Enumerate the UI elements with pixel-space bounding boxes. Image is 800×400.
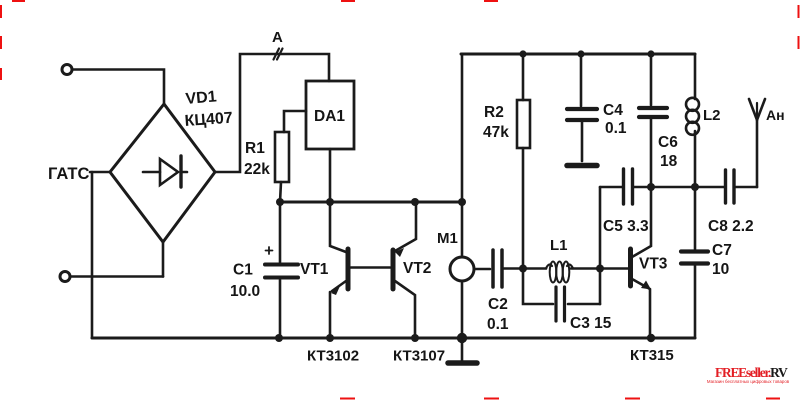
svg-text:R2: R2 [484, 104, 504, 121]
svg-text:C2: C2 [488, 296, 508, 313]
svg-text:VT3: VT3 [639, 256, 668, 273]
svg-text:ГАТС: ГАТС [48, 165, 89, 183]
svg-text:КТ3102: КТ3102 [307, 348, 359, 365]
svg-text:0.1: 0.1 [487, 316, 509, 333]
svg-text:18: 18 [660, 153, 678, 170]
svg-text:КТ3107: КТ3107 [393, 348, 445, 365]
svg-text:FREEseller.RV: FREEseller.RV [715, 365, 788, 380]
svg-text:VT1: VT1 [300, 261, 329, 278]
svg-text:22k: 22k [244, 161, 270, 178]
svg-text:R1: R1 [245, 140, 265, 157]
svg-text:0.1: 0.1 [605, 120, 627, 137]
svg-text:C5 3.3: C5 3.3 [603, 218, 649, 235]
svg-text:10: 10 [712, 261, 729, 278]
svg-text:10.0: 10.0 [230, 283, 260, 300]
svg-text:VT2: VT2 [403, 260, 431, 277]
svg-text:DA1: DA1 [314, 108, 345, 125]
svg-text:КЦ407: КЦ407 [184, 110, 233, 130]
svg-text:C7: C7 [712, 242, 732, 259]
svg-text:M1: M1 [437, 230, 458, 247]
svg-text:C3 15: C3 15 [570, 315, 612, 332]
svg-text:C8 2.2: C8 2.2 [708, 218, 754, 235]
svg-text:L2: L2 [703, 107, 721, 124]
svg-text:А: А [272, 29, 283, 46]
svg-text:VD1: VD1 [185, 88, 218, 108]
svg-text:L1: L1 [550, 237, 568, 254]
svg-text:47k: 47k [483, 124, 509, 141]
svg-text:C4: C4 [603, 102, 623, 119]
svg-text:C1: C1 [233, 262, 253, 279]
svg-text:Ан: Ан [766, 107, 785, 123]
svg-text:КТ315: КТ315 [630, 347, 674, 364]
svg-text:C6: C6 [658, 134, 678, 151]
svg-text:Магазин бесплатных цифровых то: Магазин бесплатных цифровых товаров [707, 379, 790, 384]
